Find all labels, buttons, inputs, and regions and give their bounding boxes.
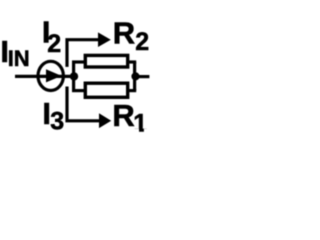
resistor R1 body xyxy=(85,83,127,97)
svg-text:3: 3 xyxy=(50,108,64,136)
svg-text:R: R xyxy=(112,98,134,133)
wire stub to R2 left xyxy=(72,60,86,63)
wire right vertical column xyxy=(133,62,136,91)
arrowhead I2 xyxy=(98,32,111,47)
svg-text:1: 1 xyxy=(133,110,147,138)
svg-text:2: 2 xyxy=(135,28,149,56)
wire left vertical node column xyxy=(72,62,75,91)
wire input horizontal xyxy=(15,75,74,78)
current source U1 circle xyxy=(38,61,63,90)
node A junction dot left xyxy=(70,72,78,80)
wire stub from R1 right xyxy=(128,89,136,92)
wire I3 current arrow L-shape xyxy=(67,87,100,121)
node B junction dot right xyxy=(131,72,139,80)
svg-text:IN: IN xyxy=(8,46,30,71)
arrowhead I3 xyxy=(99,113,111,128)
resistor R2 body xyxy=(85,55,127,67)
current source arrow triangle xyxy=(46,69,62,82)
wire I2 current arrow L-shape xyxy=(67,40,99,67)
white mask over 1 foot serif left xyxy=(133,129,139,133)
wire stub to R1 left xyxy=(72,89,86,92)
svg-text:2: 2 xyxy=(47,30,61,58)
white mask over 1 foot serif right xyxy=(144,129,148,133)
svg-text:R: R xyxy=(113,16,135,51)
wire output stub xyxy=(135,75,149,78)
wire stub from R2 right xyxy=(128,60,136,63)
